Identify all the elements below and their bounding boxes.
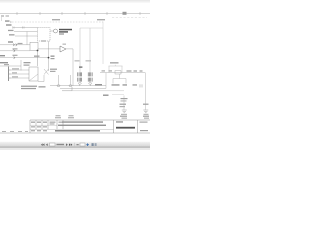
wire <box>50 85 106 87</box>
label TB2 <box>24 62 31 63</box>
twisted pair crossing <box>44 69 49 75</box>
wire <box>26 32 28 45</box>
border stub <box>1 17 3 21</box>
wire <box>14 31 38 33</box>
page number box <box>50 143 56 146</box>
tiny text above block 4b <box>144 118 149 119</box>
left dashes row2 <box>10 130 14 133</box>
label above TB1 <box>4 64 9 65</box>
net label A1 <box>8 41 13 42</box>
wire <box>58 75 60 85</box>
label fan left <box>112 84 120 85</box>
page count text <box>57 144 65 145</box>
drawing number text <box>55 130 100 131</box>
wire <box>72 90 124 92</box>
table column lines <box>30 120 63 133</box>
CB1 diagonal <box>29 74 38 81</box>
zoom-out icon <box>77 143 79 146</box>
inline connector P1 <box>13 44 17 46</box>
left dashes row4 <box>25 130 28 133</box>
splice under J3 <box>78 83 81 85</box>
row text e <box>37 130 41 131</box>
wire <box>145 73 147 110</box>
tiny text above block <box>56 115 61 116</box>
connector J4 pins upper <box>88 72 92 76</box>
polarity mark <box>79 67 82 68</box>
note text line2 <box>21 88 36 89</box>
toolbar background <box>0 142 150 147</box>
wire label 3 <box>12 76 18 77</box>
wire <box>38 75 44 82</box>
zoom-in icon <box>86 143 89 146</box>
lamp DS1 <box>54 29 58 33</box>
header cell2 <box>37 122 41 123</box>
row text b <box>37 126 41 127</box>
nav prev-page icon <box>46 143 48 146</box>
label rail stack3 <box>120 104 127 105</box>
label shield line2 <box>50 71 56 72</box>
label CONTROL COMBINER <box>59 29 72 31</box>
label rail2 <box>143 104 149 105</box>
wire <box>105 73 107 89</box>
tiny text above block 4 <box>143 116 149 117</box>
brace legs <box>109 66 122 73</box>
table mid line <box>30 125 114 129</box>
label J5 <box>109 70 113 71</box>
wire <box>13 27 38 29</box>
dashed enclosure K1 <box>38 28 51 42</box>
label rail stack1 <box>121 98 128 99</box>
wire <box>0 44 30 46</box>
wire <box>11 77 29 79</box>
net label GRN <box>0 55 5 56</box>
wire <box>60 87 106 89</box>
wire <box>72 49 74 86</box>
label R5 <box>51 56 55 57</box>
note text line1 <box>21 86 37 87</box>
faint equipment outline <box>80 28 103 64</box>
row text d <box>31 130 35 131</box>
approvals text <box>116 121 123 122</box>
mode icon2 <box>95 143 97 146</box>
wire <box>11 69 29 71</box>
label rail stack4 <box>120 106 126 107</box>
node dot <box>48 57 50 59</box>
net label BAT <box>8 30 14 31</box>
zone letter A <box>1 15 4 16</box>
wire <box>0 50 30 52</box>
left dashes row3 <box>18 130 22 133</box>
cable drop <box>102 22 104 29</box>
title block bottom border <box>0 132 150 134</box>
net label F1 <box>6 24 12 25</box>
label line 3 <box>59 33 64 34</box>
header text cells <box>31 122 35 123</box>
transformer leads <box>80 28 90 72</box>
label cable note <box>95 84 102 85</box>
mode icon <box>92 143 94 146</box>
net label AUX <box>9 34 15 35</box>
terminal strip TB1 <box>8 67 10 82</box>
wire label 1 <box>12 68 19 69</box>
connector J3 pins lower <box>78 78 82 82</box>
fanout bracket <box>113 79 126 84</box>
inline contact ticks <box>13 26 24 28</box>
separator <box>74 143 77 146</box>
connector J4 pins lower <box>88 78 92 82</box>
label R5 value <box>51 58 55 59</box>
harness tick <box>10 21 12 23</box>
zone note <box>6 15 10 16</box>
nav last-page icon <box>69 143 72 146</box>
title divider <box>113 120 115 133</box>
wire label r1 <box>127 70 132 71</box>
wire <box>37 51 39 67</box>
label above U1 <box>63 44 67 45</box>
splice SP1 <box>57 85 60 87</box>
nav first-page icon <box>41 143 44 146</box>
wire <box>80 84 90 86</box>
sheet top border <box>0 13 150 15</box>
net label A1b <box>18 43 23 44</box>
inline device A2 <box>115 71 121 74</box>
label fan mid <box>133 84 138 85</box>
viewer toolbar <box>0 142 150 150</box>
breaker box CB1 <box>29 67 38 81</box>
buffer U1 <box>60 46 66 52</box>
label rail stack2 <box>121 100 127 101</box>
wire <box>62 87 72 91</box>
inline connector P2 <box>14 50 16 52</box>
header cell5 <box>59 122 63 123</box>
faint link wire <box>112 94 124 96</box>
node dot <box>37 50 39 52</box>
wire <box>15 35 38 37</box>
ground G1 <box>122 110 127 113</box>
row text a <box>31 126 35 127</box>
dimension brace <box>109 65 123 66</box>
lower-left terminal label <box>0 62 8 63</box>
wire label r2 <box>134 70 138 71</box>
connector J3 pins upper <box>78 72 82 76</box>
wire <box>70 75 72 85</box>
net label B1 <box>13 48 18 49</box>
brace label <box>110 62 119 63</box>
ground G1 label <box>121 114 127 115</box>
label above K2 <box>41 40 46 41</box>
wire <box>48 41 50 71</box>
zone tick marks <box>17 12 140 15</box>
tiny text above block 3 <box>120 116 127 117</box>
label J4 <box>86 60 92 61</box>
header note B <box>97 19 105 20</box>
tiny text above block 3b <box>122 118 128 119</box>
zone label B4 <box>123 12 127 15</box>
main bus wire <box>100 72 146 74</box>
wire label 2 <box>12 72 17 73</box>
header cell3 <box>43 122 47 123</box>
title block <box>0 115 150 133</box>
splice under J4 <box>89 83 92 85</box>
inline connector P3 <box>14 56 16 58</box>
label TB2 line2 <box>24 65 30 66</box>
wire <box>11 73 29 75</box>
sheet text <box>140 130 148 131</box>
sheet divider <box>137 120 139 133</box>
nav next-page icon <box>66 143 68 146</box>
wire <box>38 48 73 50</box>
wire <box>50 30 54 32</box>
label W1 <box>39 86 46 87</box>
terminal marks <box>140 84 142 87</box>
header cell4 <box>50 122 56 123</box>
label shield <box>50 69 57 70</box>
net label C1 <box>13 55 18 56</box>
label near junction <box>102 70 106 71</box>
ground G2 label <box>144 114 149 115</box>
net label PWR <box>5 20 10 21</box>
right cell top text <box>140 122 148 123</box>
ground G2 <box>143 110 148 113</box>
wire <box>0 65 21 67</box>
wire <box>123 96 125 110</box>
header note A <box>52 19 60 20</box>
company mark <box>116 127 135 129</box>
label NT2 <box>103 95 109 96</box>
row text c <box>43 126 47 127</box>
label J3 <box>75 60 80 61</box>
row text f <box>43 130 47 131</box>
class note line1 <box>62 121 103 122</box>
wire <box>20 60 22 71</box>
TB1 ticks <box>9 70 11 78</box>
wire <box>0 57 49 59</box>
label LOAD <box>59 31 68 32</box>
tiny text above block 2 <box>69 115 74 116</box>
label fan right <box>123 84 128 85</box>
zoom box <box>80 143 85 146</box>
label K2 value <box>34 56 40 57</box>
fanout drop <box>119 74 121 79</box>
left dashes row <box>2 130 6 133</box>
splice SP2 <box>69 85 72 87</box>
class note line2 <box>58 125 106 126</box>
title block top line <box>30 119 150 121</box>
relay box K2 <box>30 42 38 50</box>
wire label r3 <box>140 70 143 71</box>
harness dashed run <box>12 21 103 23</box>
faint revision row <box>112 17 147 19</box>
